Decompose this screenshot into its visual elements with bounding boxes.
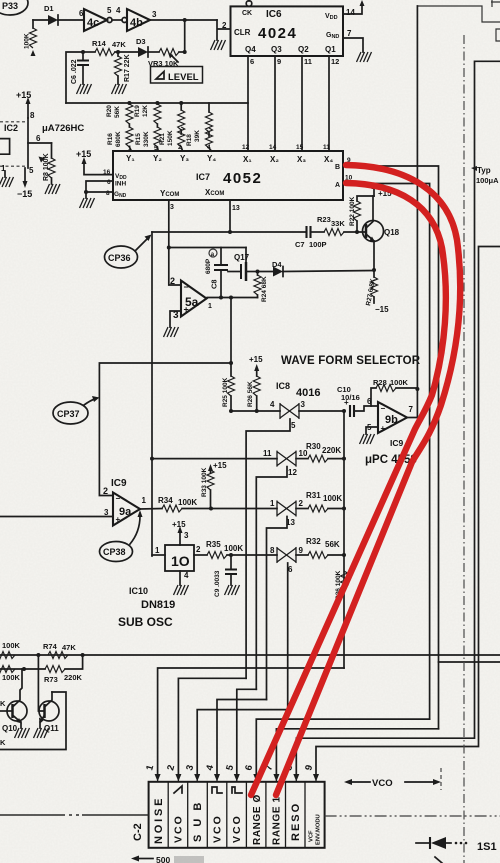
ground at 4024 pin7 xyxy=(357,52,372,62)
resistor R16 680K xyxy=(107,124,133,151)
op-amp 9a xyxy=(103,486,147,526)
svg-text:−: − xyxy=(184,282,189,292)
capacitor C7 100P xyxy=(295,226,327,249)
svg-text:11: 11 xyxy=(263,449,272,458)
svg-text:15: 15 xyxy=(296,144,304,151)
upper noise rail y655 (full width) xyxy=(0,654,500,656)
svg-text:IC9: IC9 xyxy=(390,438,404,448)
svg-text:NOISE: NOISE xyxy=(153,796,165,844)
svg-text:100μA: 100μA xyxy=(476,176,499,185)
svg-text:9: 9 xyxy=(277,57,281,66)
svg-text:B: B xyxy=(335,164,340,171)
diode D1 xyxy=(44,4,58,25)
dash-dot cable line bottom right xyxy=(325,815,500,817)
top right corner fragment xyxy=(491,0,500,7)
svg-text:56K: 56K xyxy=(114,106,121,118)
dimension arrow and 500 text at bottom edge xyxy=(131,855,204,863)
svg-text:X₄: X₄ xyxy=(324,155,333,164)
analog switch S2 xyxy=(263,449,308,477)
resistor R20 56K xyxy=(106,104,133,124)
svg-text:1S1: 1S1 xyxy=(477,841,497,853)
resistor R30 220K xyxy=(296,442,344,462)
op-amp 5a pin3 ground wire xyxy=(170,311,181,327)
svg-text:14: 14 xyxy=(269,144,277,151)
svg-text:A: A xyxy=(335,182,340,189)
svg-text:1: 1 xyxy=(270,499,275,508)
svg-text:9a: 9a xyxy=(119,506,132,518)
wire node down to VR3 xyxy=(184,20,186,52)
svg-text:5: 5 xyxy=(29,166,34,175)
analog switch S1 (IC8) xyxy=(270,400,306,430)
svg-text:1: 1 xyxy=(155,546,160,555)
wire pin4 from S3 control xyxy=(217,700,267,777)
svg-text:Y₁: Y₁ xyxy=(126,154,135,163)
wire C6 line left corner xyxy=(66,52,83,103)
svg-text:−: − xyxy=(381,404,386,413)
resistor R31 100K xyxy=(296,491,344,512)
connector pin numbers xyxy=(144,763,315,772)
svg-text:R16: R16 xyxy=(107,133,114,145)
opamp 9b feedback R28 100K xyxy=(371,378,417,406)
small tick bottom right xyxy=(435,857,442,863)
main wire y232 with left bus corner xyxy=(152,231,307,233)
CK input bubble xyxy=(246,0,252,6)
svg-text:13: 13 xyxy=(232,205,240,212)
resistor R27 6.8K to -15 xyxy=(365,270,389,314)
wire to switch 1 xyxy=(231,410,280,412)
svg-text:C-2: C-2 xyxy=(132,823,144,841)
svg-text:2: 2 xyxy=(178,144,182,151)
svg-text:+15: +15 xyxy=(213,461,227,470)
svg-text:680K: 680K xyxy=(115,131,122,147)
rail wire xyxy=(66,102,248,104)
svg-text:6: 6 xyxy=(36,134,41,143)
svg-text:R33 100K: R33 100K xyxy=(201,467,208,497)
svg-text:RANGE 1: RANGE 1 xyxy=(271,796,282,845)
svg-text:100K: 100K xyxy=(323,494,342,503)
node Q17/R24/D4 xyxy=(256,270,260,274)
svg-text:47K: 47K xyxy=(112,40,126,49)
svg-text:11: 11 xyxy=(304,57,312,66)
svg-text:C6 .022: C6 .022 xyxy=(71,59,78,84)
svg-text:2: 2 xyxy=(196,545,201,554)
wire node to C8 top and Q17 xyxy=(169,247,246,249)
svg-text:R17 22K: R17 22K xyxy=(124,54,131,82)
dash-dot cable line bottom left xyxy=(0,814,149,816)
svg-text:D3: D3 xyxy=(136,37,146,46)
top right border line xyxy=(417,6,500,22)
svg-text:RANGE Ø: RANGE Ø xyxy=(252,794,263,845)
svg-text:R19: R19 xyxy=(134,105,141,117)
svg-text:C8: C8 xyxy=(210,279,219,289)
wire Q3 to X2 xyxy=(274,56,276,151)
svg-text:4024: 4024 xyxy=(258,25,297,42)
wire to op-amp 9a pin2 xyxy=(99,363,231,496)
svg-text:VDD: VDD xyxy=(325,13,338,21)
svg-text:1: 1 xyxy=(142,496,147,505)
svg-text:R31: R31 xyxy=(306,491,321,500)
svg-text:100K: 100K xyxy=(224,544,243,553)
svg-text:CP36: CP36 xyxy=(108,253,131,263)
svg-text:R23: R23 xyxy=(317,215,331,224)
svg-text:VCO: VCO xyxy=(212,814,224,843)
+15 to 4052 VDD xyxy=(76,149,113,175)
op-amp 5a xyxy=(170,276,212,321)
wire pin2 from S1 control xyxy=(178,678,246,776)
transistor Q11 xyxy=(38,655,59,733)
wire pin1 from mix bus xyxy=(158,668,344,776)
switch1 control wire to left stair bus xyxy=(246,419,290,678)
svg-text:CP38: CP38 xyxy=(103,547,126,557)
resistor R36 100K (vertical on mix bus) xyxy=(335,570,348,600)
transistor Q10 xyxy=(0,669,27,733)
svg-text:R18: R18 xyxy=(186,134,193,146)
svg-text:12: 12 xyxy=(288,468,297,477)
svg-text:12: 12 xyxy=(242,144,250,151)
svg-text:CLR: CLR xyxy=(234,28,251,37)
inverter 4b xyxy=(116,6,157,31)
resistor R74 47K xyxy=(43,642,76,659)
resistor R32 56K xyxy=(296,537,344,559)
resistor R33 100K (vertical) xyxy=(201,467,214,508)
svg-text:1: 1 xyxy=(208,303,212,310)
resistor R19 12K xyxy=(134,104,161,124)
svg-text:7: 7 xyxy=(347,29,352,38)
svg-text:D1: D1 xyxy=(44,4,54,13)
svg-text:R74: R74 xyxy=(43,642,58,651)
svg-text:220K: 220K xyxy=(64,673,83,682)
9a output and R34 100K xyxy=(140,496,277,512)
wire pin7 RANGE1 from B bus xyxy=(276,729,438,776)
svg-text:GND: GND xyxy=(114,191,127,199)
svg-text:680P: 680P xyxy=(205,258,212,274)
svg-text:3: 3 xyxy=(301,400,306,409)
node R26 bottom xyxy=(255,409,259,413)
svg-text:150K: 150K xyxy=(167,130,174,146)
svg-text:1O: 1O xyxy=(171,553,190,569)
op-amp output bus down xyxy=(230,298,232,377)
svg-text:X₁: X₁ xyxy=(243,155,252,164)
svg-text:Q3: Q3 xyxy=(271,45,282,54)
test point CP36 xyxy=(105,235,152,269)
wire 4b output to 4024 CLR xyxy=(150,19,217,21)
svg-text:Q4: Q4 xyxy=(245,45,256,54)
svg-text:4016: 4016 xyxy=(296,387,320,399)
IC6 4024 box xyxy=(231,6,344,56)
diode legend 1S1... xyxy=(416,837,497,853)
9b output wire xyxy=(407,417,417,419)
svg-text:R32: R32 xyxy=(306,537,321,546)
+15 supply arrow xyxy=(16,90,31,118)
wire pin5 from S2 control xyxy=(237,689,256,776)
capacitor C8 680P xyxy=(205,248,228,298)
switch1 output to C10 node xyxy=(299,410,344,412)
svg-text:Q17: Q17 xyxy=(234,253,250,262)
svg-text:4c: 4c xyxy=(87,17,99,29)
svg-text:CK: CK xyxy=(242,10,252,17)
node rail-R19 xyxy=(155,101,159,105)
svg-text:S U B: S U B xyxy=(192,800,204,842)
wire D1 to inverter 4c xyxy=(58,19,84,21)
resistor R22 100K (vertical) xyxy=(349,196,374,232)
svg-text:2: 2 xyxy=(299,499,304,508)
svg-text:4: 4 xyxy=(116,6,121,15)
square waveform glyph (pin4 cell) xyxy=(212,787,222,793)
+15 above R33 xyxy=(208,461,227,473)
op-amp 9b xyxy=(367,397,414,433)
svg-text:VCO: VCO xyxy=(173,814,185,843)
svg-text:100K: 100K xyxy=(2,673,21,682)
+15 above R26 xyxy=(249,355,263,376)
feedback loop wire around Q10/Q11 xyxy=(0,692,66,750)
IC2 dashed outline fragments xyxy=(0,122,28,166)
svg-text:P33: P33 xyxy=(2,1,18,11)
svg-text:7: 7 xyxy=(409,405,414,414)
resistor R26 56K (vertical) xyxy=(247,376,260,411)
IC10 pin2 wire and R35 100K xyxy=(194,540,277,559)
VCO span annotation xyxy=(344,768,441,790)
wire Q2 to X3 xyxy=(301,56,303,151)
resistor R73 220K xyxy=(44,655,83,684)
svg-text:6: 6 xyxy=(367,397,372,406)
svg-text:6: 6 xyxy=(250,57,254,66)
svg-text:VCO: VCO xyxy=(372,778,393,789)
svg-text:R73: R73 xyxy=(44,675,58,684)
FET Q17 xyxy=(228,248,258,282)
svg-text:ENV.MODU: ENV.MODU xyxy=(316,814,322,845)
svg-text:−15: −15 xyxy=(375,305,389,314)
svg-text:GND: GND xyxy=(326,32,339,40)
resistor 100K (left edge, upper) xyxy=(0,641,21,659)
svg-text:47K: 47K xyxy=(62,643,76,652)
svg-text:IC9: IC9 xyxy=(111,478,127,489)
analog switch S4 xyxy=(270,546,304,574)
svg-text:LEVEL: LEVEL xyxy=(168,72,199,83)
node rail-R20 xyxy=(127,101,131,105)
svg-text:IC2: IC2 xyxy=(4,123,18,133)
small box fragment right edge xyxy=(496,29,500,41)
resistor R15 330K xyxy=(135,124,161,151)
connector C-2 box xyxy=(149,782,325,848)
svg-text:C7: C7 xyxy=(295,240,305,249)
svg-text:Y₄: Y₄ xyxy=(207,154,216,163)
svg-text:3: 3 xyxy=(152,10,157,19)
svg-text:IC7: IC7 xyxy=(196,172,210,182)
wire B to right bus xyxy=(343,166,439,729)
wire D4 to Q18 emitter xyxy=(283,271,374,272)
svg-text:2: 2 xyxy=(103,486,108,496)
wire pin9 from right edge xyxy=(316,247,500,777)
switch4 control wire xyxy=(287,563,289,710)
wire left bus to switch 2 xyxy=(152,458,277,460)
svg-text:+15: +15 xyxy=(249,355,263,364)
svg-text:R26 56K: R26 56K xyxy=(247,381,254,407)
svg-text:CP37: CP37 xyxy=(57,409,80,419)
potentiometer 100K (vertical, left edge) xyxy=(24,20,37,56)
svg-text:R20: R20 xyxy=(106,105,113,117)
capacitor C10 10/16 (polarized) xyxy=(337,385,378,417)
svg-text:500: 500 xyxy=(156,855,170,863)
resistor R18 39K xyxy=(186,103,213,151)
svg-text:5a: 5a xyxy=(185,295,199,309)
svg-text:IC6: IC6 xyxy=(266,9,282,20)
diode D4 xyxy=(258,260,284,277)
node to 9a input line xyxy=(229,361,233,365)
svg-text:IC8: IC8 xyxy=(276,381,290,391)
svg-text:56K: 56K xyxy=(325,540,340,549)
switch2 control wire xyxy=(256,467,287,690)
test point CP37 xyxy=(53,396,99,424)
inverter 4c xyxy=(79,6,112,31)
svg-text:9: 9 xyxy=(299,546,304,555)
svg-text:330K: 330K xyxy=(143,131,150,147)
wire pin6 RANGE0 from A bus xyxy=(256,719,429,776)
svg-text:33K: 33K xyxy=(331,219,345,228)
svg-text:6: 6 xyxy=(107,179,111,186)
pulse waveform glyph (pin5 cell) xyxy=(232,787,242,793)
test point CP38 xyxy=(100,510,143,562)
svg-text:X₂: X₂ xyxy=(270,155,279,164)
svg-text:2: 2 xyxy=(170,276,175,286)
svg-text:39K: 39K xyxy=(194,130,201,142)
resistor R21 150K xyxy=(159,103,185,151)
svg-text:−15: −15 xyxy=(17,189,32,199)
svg-text:RESO: RESO xyxy=(290,802,302,841)
svg-text:11: 11 xyxy=(323,144,330,151)
svg-text:5: 5 xyxy=(107,6,112,15)
wire Q4 to X1 xyxy=(247,56,249,151)
svg-text:Y₂: Y₂ xyxy=(153,154,162,163)
connector pin arrows xyxy=(158,776,316,781)
svg-text:Y₃: Y₃ xyxy=(180,154,189,163)
red marker line from A to RANGE 0 xyxy=(251,183,446,795)
svg-text:VCF: VCF xyxy=(309,830,315,842)
left edge box fragment xyxy=(0,139,10,155)
svg-text:VCO: VCO xyxy=(231,814,243,843)
svg-text:6: 6 xyxy=(288,565,293,574)
wire branch to right edge at y662 xyxy=(439,661,500,663)
svg-text:R21: R21 xyxy=(159,133,166,145)
node YCOM/C8 xyxy=(167,246,171,250)
svg-text:100K: 100K xyxy=(178,498,197,507)
svg-text:100K: 100K xyxy=(2,641,21,650)
svg-text:DN819: DN819 xyxy=(141,599,175,611)
svg-text:100P: 100P xyxy=(309,240,327,249)
svg-text:R24 68K: R24 68K xyxy=(261,276,268,302)
svg-text:12: 12 xyxy=(331,57,339,66)
svg-text:Q2: Q2 xyxy=(298,45,309,54)
svg-text:−: − xyxy=(116,494,121,503)
wire from P33 area to D1 xyxy=(33,19,48,21)
analog switch S3 xyxy=(270,499,304,527)
resistor R25 100K (vertical on bus) xyxy=(222,376,235,411)
svg-text:INH: INH xyxy=(115,181,127,188)
svg-text:+15: +15 xyxy=(172,520,186,529)
svg-text:5: 5 xyxy=(291,421,296,430)
svg-text:+15: +15 xyxy=(76,149,91,159)
connector signal labels xyxy=(153,794,302,845)
wire A to right bus xyxy=(343,184,430,720)
svg-text:R30: R30 xyxy=(306,442,321,451)
svg-text:R35: R35 xyxy=(206,540,221,549)
svg-text:K: K xyxy=(0,738,6,747)
svg-text:4: 4 xyxy=(184,571,189,580)
svg-text:R8 100K: R8 100K xyxy=(43,153,50,181)
capacitor C9 .0033 xyxy=(214,555,237,597)
long vertical from top border to 9b output xyxy=(416,6,418,418)
resistor R24 68K (vertical) xyxy=(254,272,268,303)
transistor Q18 xyxy=(363,196,400,270)
svg-text:100K: 100K xyxy=(390,378,409,387)
resistor R8 100K (vertical with wiper arrow) xyxy=(39,143,56,184)
resistor R14 47K xyxy=(83,39,138,56)
mix bus vertical xyxy=(343,411,345,668)
svg-text:R25 100K: R25 100K xyxy=(222,377,229,407)
resistor R23 33K xyxy=(317,215,366,236)
wire pin3 from S4 control xyxy=(197,710,288,776)
node 4b out xyxy=(183,18,187,22)
red marker line from B to RANGE 1 xyxy=(276,165,460,795)
svg-text:8: 8 xyxy=(270,546,275,555)
svg-text:+: + xyxy=(344,398,349,407)
wire node down to op-amp pin2 xyxy=(169,248,181,286)
node R25 bottom xyxy=(229,409,233,413)
+15 above IC10 pin3 xyxy=(172,520,189,545)
svg-text:8: 8 xyxy=(106,190,110,197)
svg-text:14: 14 xyxy=(346,8,355,17)
svg-text:Typ: Typ xyxy=(477,166,491,175)
9b pin5 ground xyxy=(366,427,378,434)
ground under R17 xyxy=(112,84,127,94)
svg-text:R15: R15 xyxy=(135,133,142,145)
svg-text:Q10: Q10 xyxy=(2,724,18,733)
INH and GND wires to ground xyxy=(86,181,113,198)
lower noise rail y669 xyxy=(0,668,45,670)
svg-text:100K: 100K xyxy=(24,33,31,49)
svg-text:Q18: Q18 xyxy=(384,228,400,237)
connector P33 (partial ellipse top-left) xyxy=(0,0,28,15)
wire pin8 RESO from right border xyxy=(296,61,500,776)
marker circled a xyxy=(209,249,217,258)
svg-text:4: 4 xyxy=(207,144,211,151)
svg-text:WAVE FORM SELECTOR: WAVE FORM SELECTOR xyxy=(281,355,421,367)
svg-text:9b: 9b xyxy=(385,414,398,426)
svg-text:12K: 12K xyxy=(142,105,149,117)
capacitor C6 .022 xyxy=(71,52,89,84)
svg-text:R14: R14 xyxy=(92,39,107,48)
svg-text:IC10: IC10 xyxy=(129,586,148,596)
VCF ENV MODU label (pin 9 cell) xyxy=(309,814,322,845)
node rail-R21 xyxy=(179,101,183,105)
svg-text:3: 3 xyxy=(170,204,174,211)
svg-text:3: 3 xyxy=(184,531,189,540)
svg-text:C9 .0033: C9 .0033 xyxy=(214,570,221,597)
svg-text:220K: 220K xyxy=(322,446,341,455)
diode D3 xyxy=(136,37,148,57)
svg-text:Q1: Q1 xyxy=(325,45,336,54)
svg-text:μA726HC: μA726HC xyxy=(42,123,84,134)
IC10 box xyxy=(165,545,194,571)
Typ 100uA annotation xyxy=(471,166,499,185)
dash-dot border vertical xyxy=(463,35,465,863)
svg-text:4b: 4b xyxy=(130,17,143,29)
ground under R8 xyxy=(45,184,60,194)
svg-text:SUB OSC: SUB OSC xyxy=(118,615,173,629)
wire Q1 to X4 xyxy=(328,56,330,151)
connector cell dividers xyxy=(168,782,305,848)
ramp waveform glyph (pin2 cell) xyxy=(174,786,182,793)
svg-text:4052: 4052 xyxy=(223,170,262,187)
